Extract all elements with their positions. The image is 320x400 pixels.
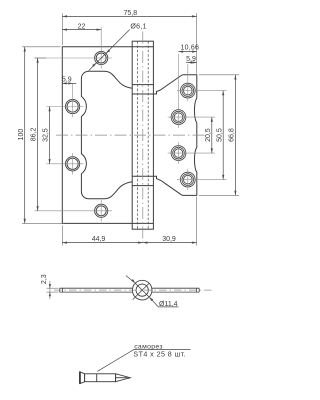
hole bottom-left-leaf — [95, 204, 108, 217]
svg-text:50,5: 50,5 — [216, 128, 223, 142]
label Ø6,1 with leader — [89, 30, 130, 71]
left leaf cutout contour — [81, 71, 132, 199]
right hole 2 — [171, 110, 186, 125]
dimension 20,5 — [211, 117, 213, 153]
pin centerline vertical — [142, 32, 144, 246]
svg-text:86,2: 86,2 — [31, 127, 38, 141]
dimension 75,8 — [62, 15, 196, 17]
hole top-left — [95, 51, 108, 64]
svg-text:2,3: 2,3 — [41, 274, 48, 284]
svg-text:66,8: 66,8 — [229, 128, 236, 142]
dimension 5,9 right — [186, 62, 197, 64]
dimension 32,5 — [49, 107, 51, 164]
dimension 30,9 — [143, 242, 197, 244]
label Ø11,4 with leader — [126, 276, 179, 307]
hole centrelines — [35, 27, 227, 222]
column hole 1 — [66, 99, 80, 113]
screw tip — [116, 374, 131, 382]
dimension 2,3 — [47, 281, 59, 299]
dimension 50,5 — [222, 91, 224, 180]
side-view cross — [133, 283, 149, 299]
right hole 4 — [180, 172, 195, 187]
screw head — [80, 372, 85, 384]
dimension 86,2 — [37, 58, 39, 211]
right hole 1 — [180, 83, 195, 98]
svg-text:5,9: 5,9 — [62, 77, 72, 84]
svg-text:22: 22 — [78, 23, 86, 30]
left leaf outline — [62, 47, 153, 224]
svg-text:32,5: 32,5 — [43, 128, 50, 142]
side-view plate — [60, 288, 200, 292]
side-view barrel circle — [132, 280, 152, 300]
svg-text:Ø11,4: Ø11,4 — [159, 301, 178, 308]
right hole 3 — [171, 146, 186, 161]
svg-text:75,8: 75,8 — [123, 10, 137, 17]
barrel (knuckle) — [132, 41, 153, 229]
extension lines — [22, 13, 239, 245]
svg-text:100: 100 — [18, 129, 25, 141]
column hole 2 — [66, 157, 80, 171]
screw label leader — [97, 349, 190, 371]
svg-text:44,9: 44,9 — [92, 236, 106, 243]
dimension 100 — [24, 47, 26, 224]
main horizontal centerline — [56, 134, 206, 136]
dimension 5,9 left — [62, 82, 76, 84]
dimension 10,66 — [179, 51, 197, 53]
svg-text:30,9: 30,9 — [162, 236, 176, 243]
svg-text:5,9: 5,9 — [186, 56, 196, 63]
screw shank — [85, 374, 116, 382]
svg-text:ST4 x 25 8 шт.: ST4 x 25 8 шт. — [133, 350, 186, 358]
svg-text:Ø6,1: Ø6,1 — [130, 23, 146, 30]
dimension 66,8 — [234, 75, 236, 196]
svg-text:10,66: 10,66 — [181, 45, 200, 52]
svg-text:20,5: 20,5 — [205, 128, 212, 142]
right leaf outline — [153, 75, 196, 196]
dimension 44,9 — [62, 242, 143, 244]
side-view centerline — [54, 289, 212, 291]
barrel hidden bore lines — [138, 41, 149, 229]
dimension 22 — [62, 29, 101, 31]
